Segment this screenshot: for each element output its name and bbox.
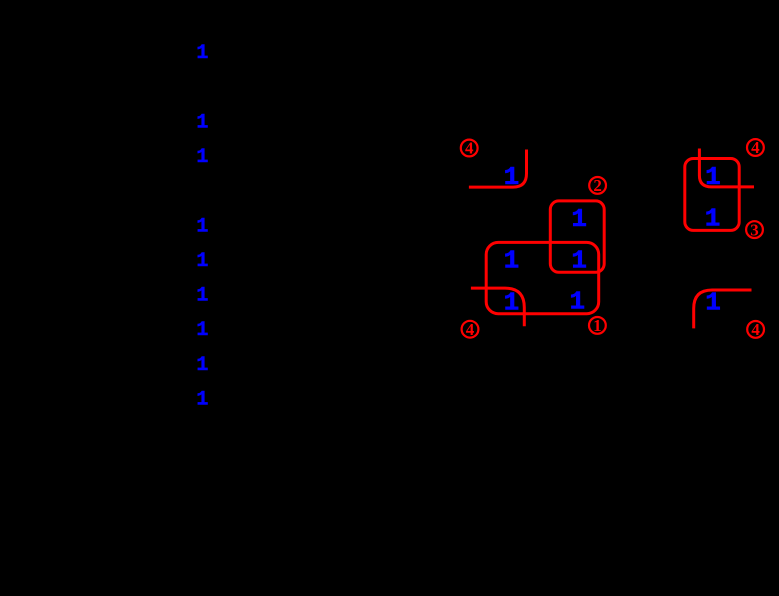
svg-text:1: 1 <box>569 286 585 316</box>
svg-text:4: 4 <box>466 320 475 339</box>
svg-text:1: 1 <box>504 245 520 275</box>
svg-text:1: 1 <box>196 111 208 134</box>
svg-text:3: 3 <box>750 220 759 239</box>
svg-text:2: 2 <box>593 176 602 195</box>
svg-text:1: 1 <box>196 388 208 411</box>
svg-text:1: 1 <box>571 204 587 234</box>
svg-text:1: 1 <box>196 146 208 169</box>
svg-text:1: 1 <box>196 319 208 342</box>
svg-text:1: 1 <box>196 250 208 273</box>
svg-text:1: 1 <box>196 42 208 65</box>
svg-text:4: 4 <box>465 139 474 158</box>
svg-text:1: 1 <box>593 316 602 335</box>
svg-text:1: 1 <box>196 215 208 238</box>
svg-text:1: 1 <box>705 288 721 318</box>
svg-text:1: 1 <box>196 354 208 377</box>
svg-text:4: 4 <box>751 138 760 157</box>
svg-text:1: 1 <box>196 285 208 308</box>
svg-text:4: 4 <box>751 320 760 339</box>
